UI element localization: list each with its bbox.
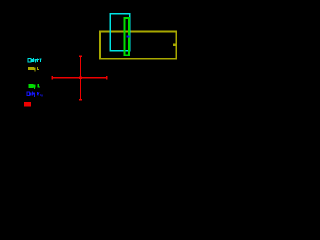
bottom end tick	[79, 99, 82, 101]
top end tick	[79, 55, 82, 57]
wire: crosshair horizontal axis	[52, 77, 107, 79]
crosshair center node	[79, 76, 82, 79]
courtyard outline U1 (olive layer)	[100, 32, 176, 59]
legend label: "mny t" (olive layer name)	[28, 67, 39, 72]
component body outline (cyan layer)	[110, 14, 130, 51]
pin-1 notch on courtyard right edge	[173, 44, 176, 46]
legend swatch (red)	[24, 102, 31, 106]
pad outline (green layer)	[124, 18, 129, 55]
via marker (blue)	[126, 35, 129, 37]
legend label: "Only T" (cyan layer name)	[28, 58, 41, 62]
cursor crosshair (red)	[52, 56, 107, 100]
left end tick	[51, 76, 53, 79]
wire: crosshair vertical axis	[80, 56, 82, 100]
legend label: "mny t" (green layer name)	[28, 84, 40, 89]
legend label: "Only V." (blue layer name)	[27, 92, 42, 97]
right end tick	[106, 76, 108, 79]
